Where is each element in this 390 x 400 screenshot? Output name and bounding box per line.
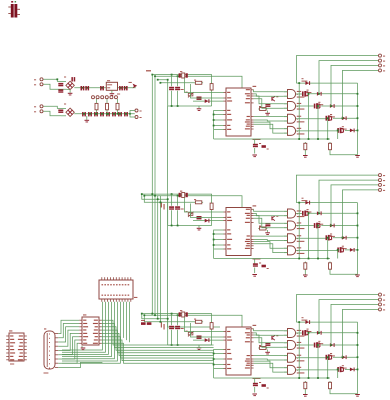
voltage regulator IC2 bbox=[106, 80, 117, 90]
resistor R3b bbox=[210, 321, 213, 330]
ground regulator bbox=[110, 93, 115, 96]
resistor R2a bbox=[194, 199, 203, 204]
junction dots IC2 left bbox=[213, 233, 215, 246]
net bus lines into block 2 bbox=[158, 199, 195, 225]
transistor Q12 MOSFET bbox=[314, 102, 323, 109]
AND gate block 3 #4 bbox=[284, 365, 305, 374]
ground bridge A bbox=[68, 93, 73, 96]
capacitor C1f bbox=[265, 104, 270, 107]
wires gate outputs block 2 bbox=[296, 214, 337, 251]
connector output pins block 2 bbox=[379, 174, 386, 192]
capacitor C3e bbox=[262, 384, 269, 388]
junction dots bus block 1 bbox=[151, 74, 178, 84]
resistor R3c bbox=[258, 345, 267, 350]
junction dots IC3 left bbox=[213, 353, 215, 366]
wires FET sources block 2 bbox=[299, 203, 338, 259]
wire gnd bridge A bbox=[69, 90, 71, 93]
diode D2top bbox=[302, 198, 311, 205]
junction dots bus jog block 2 bbox=[141, 193, 145, 196]
capacitor C2b bbox=[175, 206, 184, 209]
capacitor C2f bbox=[265, 223, 270, 226]
wire R3c gnd bbox=[267, 350, 269, 352]
capacitor C2a bbox=[169, 206, 174, 209]
wires X1 to IC4 bbox=[58, 320, 79, 363]
capacitor C power A7 bbox=[119, 86, 123, 90]
AND gate block 1 #1 bbox=[284, 90, 305, 99]
wire X1 pin 9 bbox=[58, 362, 102, 367]
capacitor power B1 bbox=[58, 110, 63, 113]
AND gate block 3 #3 bbox=[284, 353, 305, 362]
wires FET drain rows block 1 bbox=[310, 94, 358, 131]
wire gnd rail block 1 bbox=[168, 106, 212, 108]
resistor RJ1 bbox=[95, 102, 98, 111]
transistor Q32 MOSFET bbox=[314, 341, 323, 348]
ground crystal block 1 bbox=[197, 108, 202, 111]
wire R1c gnd bbox=[267, 111, 269, 113]
pin input B1 bbox=[34, 105, 43, 108]
capacitor power A1 bbox=[58, 83, 63, 86]
diode D2a bbox=[205, 219, 210, 223]
AND gate block 2 #2 bbox=[284, 221, 305, 230]
wire IC1 left lower pins bbox=[214, 111, 224, 140]
wire power A input bbox=[43, 79, 70, 89]
pin output B2 bbox=[135, 116, 142, 119]
crystal Q2 bbox=[179, 191, 188, 198]
capacitor C3f bbox=[265, 343, 270, 346]
diode D34 bbox=[350, 368, 355, 372]
wire top rail block 1 bbox=[296, 83, 357, 155]
wire reset cluster block 1 bbox=[254, 139, 256, 154]
connector output pins block 1 bbox=[379, 54, 386, 72]
resistor R1a bbox=[194, 80, 203, 85]
supply arrow +5V bbox=[129, 82, 138, 89]
ground cluster block 2 bbox=[252, 274, 257, 277]
capacitor C2e bbox=[262, 265, 269, 269]
capacitor C3a bbox=[169, 326, 174, 329]
wire top rail block 3 bbox=[296, 322, 357, 394]
capacitor C1d bbox=[253, 143, 261, 147]
diode D14 bbox=[350, 129, 355, 133]
bus vertical net V6 bbox=[168, 106, 220, 327]
wires FET sources block 1 bbox=[299, 83, 338, 139]
wire XTAL2 block 3 bbox=[191, 323, 224, 337]
capacitor C1e bbox=[262, 145, 269, 149]
capacitor CB3 bbox=[94, 112, 98, 116]
wire XTAL2 block 1 bbox=[191, 84, 224, 98]
wire XTAL1 block 2 bbox=[185, 198, 224, 213]
wires IC5 bottom bundle bbox=[62, 302, 129, 363]
junction dots rail block 2 bbox=[171, 225, 179, 227]
ground cluster block 3 bbox=[252, 394, 257, 397]
wires gate outputs block 3 bbox=[296, 333, 337, 370]
pin output B1 bbox=[135, 109, 142, 112]
transistor Q31 MOSFET bbox=[302, 329, 311, 336]
diode D13 bbox=[342, 116, 347, 120]
diode D22 bbox=[330, 224, 335, 228]
wire bus jog block 3 bbox=[142, 314, 161, 322]
trimmer C1t bbox=[186, 92, 194, 98]
wires FET drain rows block 2 bbox=[310, 213, 358, 250]
capacitor CB5 bbox=[106, 112, 110, 116]
net label bus mid2 bbox=[161, 322, 165, 330]
transistor Q33 MOSFET bbox=[326, 353, 335, 360]
wires output pins block 2 bbox=[296, 175, 378, 238]
connector output pins block 3 bbox=[379, 293, 386, 311]
diode D32 bbox=[330, 343, 335, 347]
AND gate block 3 #2 bbox=[284, 341, 305, 350]
wire diode row block 3 bbox=[193, 339, 224, 341]
ground row B bbox=[85, 120, 90, 123]
wire R2b bottom bbox=[211, 211, 213, 226]
ground IC4 bbox=[81, 348, 86, 351]
capacitor CB2 bbox=[88, 112, 92, 116]
junction dots row B bbox=[83, 113, 131, 115]
wire IC2 left lower pins bbox=[214, 230, 224, 259]
junction dots bus block 3 bbox=[151, 313, 178, 323]
resistor R3e bbox=[329, 381, 332, 390]
IC1 microcontroller MEGA8 bbox=[223, 86, 260, 140]
net label bus mid1 bbox=[161, 202, 165, 210]
wire bottom rail block 1 bbox=[214, 138, 330, 140]
wire power B main bbox=[74, 113, 135, 115]
ground R1c bbox=[265, 113, 270, 116]
wire IC3 left lower pins bbox=[214, 350, 224, 379]
bridge rectifier B1 bbox=[64, 77, 74, 90]
capacitor C power A6 bbox=[100, 86, 104, 90]
trimmer C2t bbox=[186, 211, 194, 217]
wire bottom rail block 3 bbox=[214, 377, 330, 379]
transistor T1a bbox=[271, 96, 278, 101]
ground right rail block 1 bbox=[355, 155, 360, 158]
IC6 spare gate IC bbox=[6, 330, 27, 364]
capacitor CB4 bbox=[100, 112, 104, 116]
wire R1b bottom bbox=[211, 91, 213, 106]
resistor R1b bbox=[210, 82, 213, 91]
capacitor bus C9 bbox=[141, 320, 151, 325]
wires gate outputs block 1 bbox=[296, 94, 337, 131]
diode D33 bbox=[342, 355, 347, 359]
connector X1 D-sub bbox=[44, 328, 59, 373]
crystal Q1 bbox=[179, 71, 188, 78]
AND gate block 1 #2 bbox=[284, 102, 305, 111]
bus vertical net V4 bbox=[159, 196, 161, 322]
transistor Q13 MOSFET bbox=[326, 114, 335, 121]
transistor Q23 MOSFET bbox=[326, 234, 335, 241]
IC2 microcontroller MEGA8 bbox=[223, 205, 260, 259]
wire R1e gnd bbox=[330, 151, 358, 155]
capacitor C3d bbox=[253, 382, 261, 386]
capacitor CB8 bbox=[124, 112, 128, 116]
resistor R3d bbox=[304, 381, 307, 390]
capacitor power A2 bbox=[58, 89, 63, 92]
wire XTAL2 block 2 bbox=[191, 204, 224, 218]
net bus lines into block 1 bbox=[158, 80, 195, 106]
IC4 buffer bbox=[79, 314, 102, 345]
ground right rail block 3 bbox=[355, 394, 360, 397]
wires IC4 to IC3 bus bbox=[102, 320, 214, 363]
resistor R1d bbox=[304, 142, 307, 151]
ground right rail block 2 bbox=[355, 275, 360, 278]
capacitor C2d bbox=[253, 263, 261, 267]
resistor R2d bbox=[304, 262, 307, 271]
junction dots bus block 2 bbox=[151, 193, 178, 203]
wire gnd rail block 2 bbox=[168, 226, 212, 228]
wire diode row block 2 bbox=[193, 220, 224, 222]
wire R3d gnd bbox=[304, 390, 306, 394]
ground R3c bbox=[265, 352, 270, 355]
ground crystal block 3 bbox=[197, 347, 202, 350]
diode D24 bbox=[350, 248, 355, 252]
trimmer C3t bbox=[186, 331, 194, 337]
wire bottom rail block 2 bbox=[214, 258, 330, 260]
transistor T3a bbox=[271, 335, 278, 340]
transformer TR1 bbox=[8, 1, 20, 18]
capacitor CB6 bbox=[112, 112, 116, 116]
diode D3a bbox=[205, 338, 210, 342]
AND gate block 1 #3 bbox=[284, 114, 305, 123]
wire power A main bbox=[74, 87, 136, 89]
wire R1d gnd bbox=[304, 151, 306, 155]
capacitor C power A4 bbox=[81, 86, 85, 90]
AND gate block 2 #3 bbox=[284, 234, 305, 243]
net label bus top bbox=[146, 70, 151, 71]
capacitor power A3 bbox=[71, 77, 75, 81]
junction dots rail block 3 bbox=[171, 344, 179, 346]
diode D3top bbox=[302, 317, 311, 324]
capacitor CB7 bbox=[118, 112, 122, 116]
ground R1d bbox=[303, 155, 308, 158]
capacitor C3c bbox=[197, 336, 202, 339]
ground cluster block 1 bbox=[252, 155, 257, 158]
wires IC3 to gate inputs bbox=[254, 329, 284, 372]
wire gnd row B bbox=[86, 116, 88, 120]
wire RJ2 bbox=[106, 99, 108, 114]
capacitor C power A5 bbox=[85, 86, 89, 90]
AND gate block 2 #1 bbox=[284, 209, 305, 218]
transistor Q24 MOSFET bbox=[337, 246, 346, 253]
ground R2d bbox=[303, 275, 308, 278]
wire R3b bottom bbox=[211, 330, 213, 345]
junction dots row A bbox=[56, 78, 126, 88]
wires FET drain rows block 3 bbox=[310, 333, 358, 370]
wire gnd IC4 bbox=[81, 346, 83, 348]
pin input A2 bbox=[34, 83, 43, 86]
wires output pins block 1 bbox=[296, 56, 378, 119]
wire crystal legs block 3 bbox=[172, 314, 178, 345]
wire RJ1 bbox=[96, 99, 98, 114]
resistor R3a bbox=[194, 319, 203, 324]
diode D21 bbox=[317, 211, 322, 215]
junction dots grid block 3 bbox=[298, 321, 358, 379]
junction dots grid block 2 bbox=[298, 202, 358, 260]
transistor T2a bbox=[271, 216, 278, 221]
ground R3d bbox=[303, 394, 308, 397]
resistor R1e bbox=[329, 142, 332, 151]
wire R2c gnd bbox=[267, 230, 269, 232]
resistor R2c bbox=[258, 226, 267, 231]
wires output pins block 3 bbox=[296, 295, 378, 358]
wire crystal legs block 1 bbox=[172, 75, 178, 106]
wire R2d gnd bbox=[304, 271, 306, 275]
capacitor C3b bbox=[175, 326, 184, 329]
diode D23 bbox=[342, 236, 347, 240]
AND gate block 1 #4 bbox=[284, 126, 305, 135]
transistor Q14 MOSFET bbox=[337, 126, 346, 133]
junction dots rail block 1 bbox=[171, 105, 179, 107]
wires IC1 to gate inputs bbox=[254, 90, 284, 133]
IC5 latch bbox=[99, 277, 137, 302]
diode D1top bbox=[302, 78, 311, 85]
wires IC2 to gate inputs bbox=[254, 209, 284, 252]
diode D31 bbox=[317, 331, 322, 335]
wire gnd regulator bbox=[111, 90, 113, 93]
pin input A1 bbox=[34, 78, 43, 81]
pin input B2 bbox=[34, 110, 43, 113]
net bus lines into block 3 bbox=[158, 319, 195, 345]
transistor Q11 MOSFET bbox=[302, 90, 311, 97]
diode D1a bbox=[205, 99, 210, 103]
wire power B input bbox=[43, 106, 66, 116]
resistor RJ2 bbox=[106, 102, 109, 111]
capacitor C1b bbox=[175, 87, 184, 90]
wire R3e gnd bbox=[330, 390, 358, 394]
IC3 microcontroller MEGA8 bbox=[223, 325, 260, 379]
wire R2e gnd bbox=[330, 271, 358, 275]
capacitor C1c bbox=[197, 97, 202, 100]
AND gate block 3 #1 bbox=[284, 329, 305, 338]
wire reset cluster block 2 bbox=[254, 259, 256, 274]
wire crystal legs block 2 bbox=[172, 194, 178, 225]
capacitor C2c bbox=[197, 216, 202, 219]
junction dots grid block 1 bbox=[298, 82, 358, 140]
bus vertical net V3 bbox=[157, 196, 159, 319]
wire gnd rail block 3 bbox=[168, 345, 212, 347]
junction dots IC1 left bbox=[213, 114, 215, 127]
diode D12 bbox=[330, 104, 335, 108]
pin header JP1 bbox=[92, 94, 121, 99]
wire diode row block 1 bbox=[193, 100, 224, 102]
transistor Q21 MOSFET bbox=[302, 209, 311, 216]
bridge rectifier B2 bbox=[64, 104, 74, 117]
wires FET sources block 3 bbox=[299, 322, 338, 378]
transistor Q22 MOSFET bbox=[314, 221, 323, 228]
bus vertical net V2 bbox=[154, 76, 156, 316]
crystal Q3 bbox=[179, 310, 188, 317]
wire top rail block 2 bbox=[296, 203, 357, 275]
bus vertical net V1 bbox=[151, 75, 153, 314]
wire RJ3 bbox=[117, 99, 119, 114]
ground crystal block 2 bbox=[197, 228, 202, 231]
resistor R1c bbox=[258, 106, 267, 111]
capacitor C power A8 bbox=[124, 86, 128, 90]
transistor Q34 MOSFET bbox=[337, 365, 346, 372]
AND gate block 2 #4 bbox=[284, 246, 305, 255]
ground R2c bbox=[265, 232, 270, 235]
wire bus jog block 2 bbox=[142, 194, 161, 202]
wire output B pins bbox=[130, 111, 135, 118]
net VCC bus into block 1 bbox=[152, 75, 242, 88]
wire reset cluster block 3 bbox=[254, 378, 256, 393]
net VCC bus into block 2 bbox=[152, 194, 242, 207]
resistor R2b bbox=[210, 202, 213, 211]
net VCC bus into block 3 bbox=[152, 314, 242, 327]
resistor RJ3 bbox=[116, 102, 119, 111]
capacitor C1a bbox=[169, 87, 174, 90]
diode D11 bbox=[317, 92, 322, 96]
junction dots bus jog block 3 bbox=[141, 313, 145, 316]
resistor R2e bbox=[329, 262, 332, 271]
wire XTAL1 block 1 bbox=[185, 78, 224, 93]
capacitor CB1 bbox=[82, 112, 86, 116]
wire XTAL1 block 3 bbox=[185, 317, 224, 332]
